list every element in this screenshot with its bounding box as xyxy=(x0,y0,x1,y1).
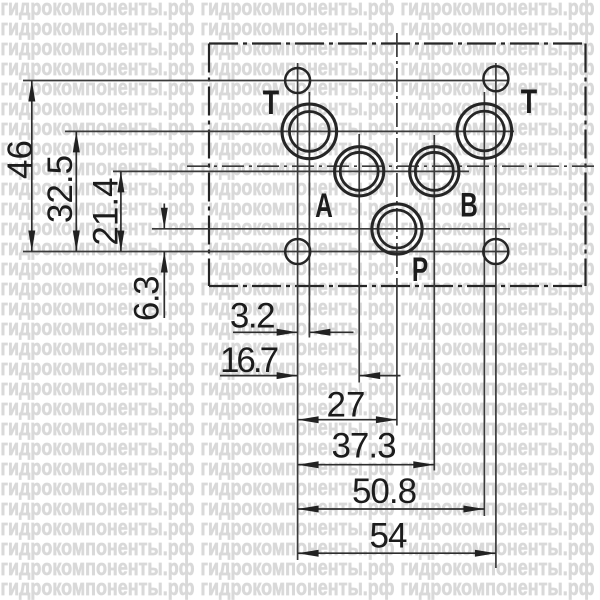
svg-text:54: 54 xyxy=(370,517,407,556)
dimension 46 line xyxy=(31,81,33,252)
extension line x=0 (left bolt column) xyxy=(297,63,299,560)
svg-text:37.3: 37.3 xyxy=(331,427,395,466)
dimension 16.7 line (outside arrows) xyxy=(220,375,298,377)
svg-text:32.5: 32.5 xyxy=(41,155,80,223)
bolt hole bottom right xyxy=(483,239,508,264)
port T right (double circle) xyxy=(457,104,512,159)
svg-text:гидрокомпоненты.рф: гидрокомпоненты.рф xyxy=(0,576,194,600)
svg-text:гидрокомпоненты.рф: гидрокомпоненты.рф xyxy=(400,576,594,600)
dimension 54 line xyxy=(298,552,496,554)
svg-text:T: T xyxy=(521,83,538,121)
svg-text:P: P xyxy=(412,251,428,289)
P port centre line xyxy=(152,228,510,230)
svg-text:46: 46 xyxy=(1,140,40,179)
bolt hole bottom left xyxy=(285,239,310,264)
dimension 37.3 line xyxy=(298,464,435,466)
port T left (double circle) xyxy=(282,104,337,159)
extension line T right port column xyxy=(483,92,485,516)
dimension 21.4 line xyxy=(120,171,122,251)
A B ports centre line xyxy=(113,170,469,172)
extension line B port column xyxy=(433,135,435,471)
svg-text:гидрокомпоненты.рф: гидрокомпоненты.рф xyxy=(201,576,395,600)
port A (double circle) xyxy=(335,147,384,196)
dimension 3.2 line (outside arrows) xyxy=(233,331,298,333)
svg-text:16.7: 16.7 xyxy=(220,341,278,380)
vertical body centre line / P port extension xyxy=(396,33,398,290)
dimension 6.3 line (outside arrows) xyxy=(163,204,165,229)
svg-text:A: A xyxy=(315,187,333,225)
horizontal body centre line xyxy=(187,165,597,167)
dimension 50.8 line xyxy=(298,508,485,510)
svg-text:21.4: 21.4 xyxy=(87,177,126,245)
bolt hole top right xyxy=(483,66,508,91)
extension line A port column xyxy=(358,134,360,383)
bolt hole top left xyxy=(285,68,310,93)
extension line x=54 (right bolt column) xyxy=(495,63,497,568)
svg-text:3.2: 3.2 xyxy=(230,297,274,336)
bolt-hole top centre line xyxy=(23,80,509,82)
svg-text:6.3: 6.3 xyxy=(128,277,167,321)
dimension 27 line xyxy=(298,419,397,421)
svg-text:T: T xyxy=(263,84,280,122)
port P (double circle) xyxy=(372,204,422,254)
svg-text:B: B xyxy=(460,187,478,225)
svg-text:27: 27 xyxy=(327,386,366,425)
svg-text:50.8: 50.8 xyxy=(352,472,416,511)
dimension 32.5 line xyxy=(75,131,77,251)
bolt-hole bottom centre line xyxy=(23,251,509,253)
extension line T left port column xyxy=(308,92,310,338)
T ports centre line xyxy=(65,130,514,132)
valve body outline (chain line rectangle) xyxy=(209,44,586,287)
port B (double circle) xyxy=(410,147,459,196)
